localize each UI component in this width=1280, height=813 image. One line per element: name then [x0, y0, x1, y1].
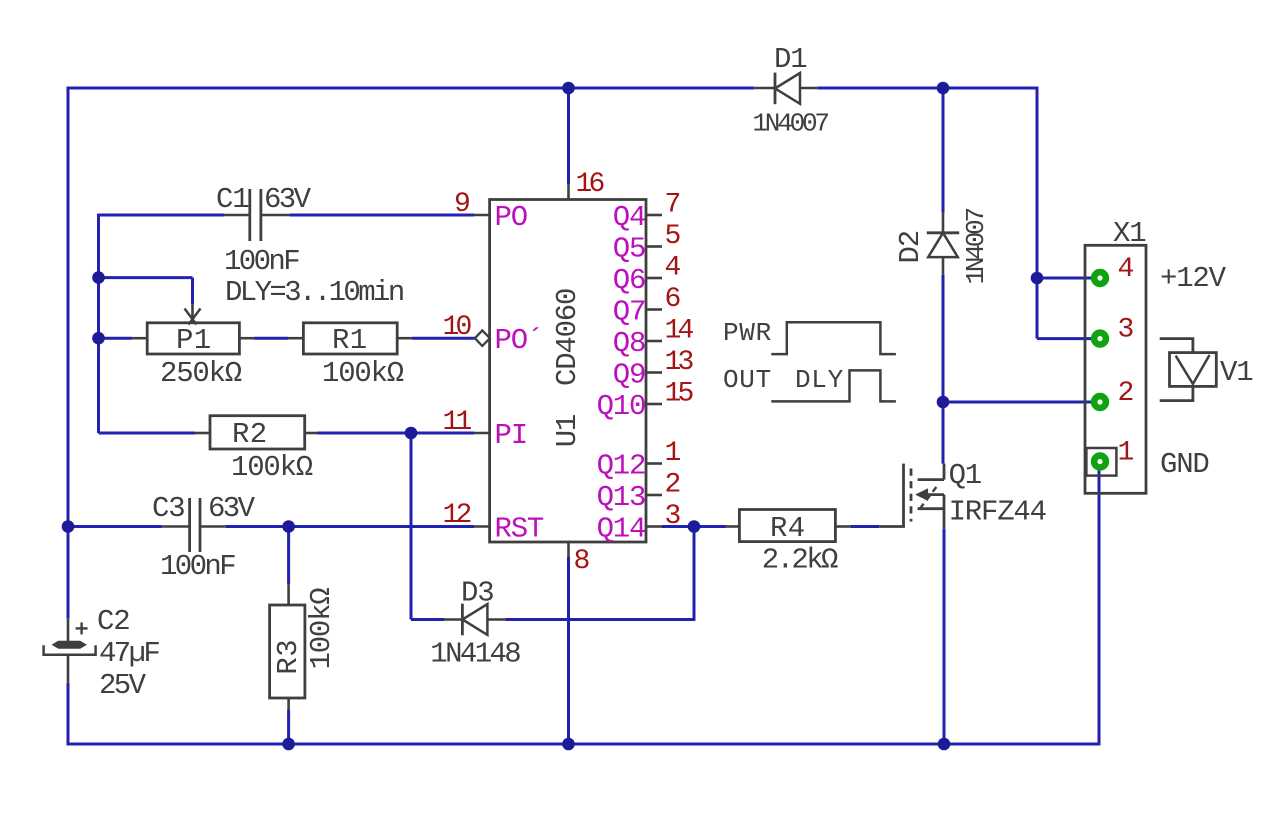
lamp V1 top lead: [1160, 339, 1193, 353]
wire +12V top rail left segment: [67, 87, 754, 90]
connector X1 pad pin 1: [1094, 456, 1106, 468]
wire C1 right plate to IC pin 9: [289, 214, 474, 217]
IC U1 right pin stub row 4: [646, 340, 662, 343]
svg-text:63V: 63V: [208, 492, 256, 525]
wire rail to P1 left: [99, 337, 132, 340]
diode D3 symbol: [461, 604, 464, 636]
resistor R3 top lead: [287, 584, 290, 605]
resistor R2 body: [210, 416, 305, 449]
svg-text:5: 5: [665, 221, 681, 252]
connector X1 pad pin 2: [1094, 396, 1106, 408]
svg-text:DLY=3..10min: DLY=3..10min: [225, 276, 403, 309]
IC U1 pin 8 stub: [567, 542, 570, 557]
wire left GND rail below C2: [67, 683, 70, 746]
wire D3 anode to Q14 node vertical: [505, 618, 694, 621]
svg-text:C1: C1: [216, 183, 248, 216]
transistor Q1 drain stub: [918, 478, 944, 481]
IC U1 right pin stub row 6: [646, 403, 662, 406]
svg-text:X1: X1: [1113, 217, 1145, 250]
svg-text:1N4007: 1N4007: [752, 109, 828, 139]
svg-text:Q12: Q12: [597, 450, 646, 483]
svg-text:250kΩ: 250kΩ: [160, 357, 242, 390]
transistor Q1 bulk stub: [918, 493, 944, 496]
junction R3 bottom on GND rail: [282, 738, 295, 751]
junction PI node: [405, 427, 418, 440]
svg-text:2: 2: [1118, 378, 1133, 409]
svg-text:R4: R4: [770, 512, 806, 545]
transistor Q1 drain lead vertical: [943, 464, 946, 480]
wire GND bottom rail: [67, 743, 1099, 746]
wire top-right corner down to X1 pin 4: [1036, 87, 1039, 278]
svg-text:D2: D2: [894, 231, 927, 263]
svg-text:OUT: OUT: [723, 365, 772, 395]
svg-text:63V: 63V: [264, 183, 312, 216]
wire D2 anode down to Q1 drain node: [942, 275, 945, 464]
wire D2 cathode up to +12V rail: [942, 87, 945, 213]
capacitor C1 left lead: [224, 214, 249, 217]
diode D1 left lead: [754, 87, 775, 90]
wire PI node down to D3 row: [410, 433, 413, 620]
wire X1 pin 1 down to GND rail: [1098, 470, 1101, 745]
svg-text:PO´: PO´: [495, 324, 544, 357]
wire left rail to C3: [68, 525, 162, 528]
resistor R1 body: [303, 323, 397, 354]
transistor Q1 channel dashed line: [910, 469, 913, 522]
wire IC pin 8 down to GND rail: [567, 557, 570, 744]
wire R3 top lead up to RST row: [287, 527, 290, 585]
svg-text:14: 14: [665, 316, 694, 347]
IC U1 pin 10 inverting diamond: [475, 330, 490, 346]
junction wiper branch on rail: [92, 271, 105, 284]
wire +12V top rail right segment: [818, 87, 1039, 90]
junction C3 row on left rail: [62, 520, 75, 533]
diode D3 left lead: [443, 618, 462, 621]
diode D2 top lead: [942, 213, 945, 233]
wire X1 pin 3 horizontal: [1037, 337, 1092, 340]
resistor R2 right lead: [305, 432, 318, 435]
wire left +12V rail vertical: [67, 87, 70, 619]
svg-text:11: 11: [443, 407, 472, 438]
wire IC pin 16 up to +12V rail: [567, 88, 570, 184]
junction IC pin8 on GND rail: [562, 738, 575, 751]
resistor R4 right lead: [835, 525, 851, 528]
wire Q1 source down to GND rail: [943, 529, 946, 744]
svg-text:+12V: +12V: [1160, 262, 1227, 295]
IC U1 right pin stub row 7: [646, 462, 662, 465]
svg-text:C2: C2: [97, 605, 129, 638]
diode D3 right lead: [487, 618, 505, 621]
waveform PWR trace: [771, 322, 896, 354]
svg-text:16: 16: [576, 169, 604, 200]
svg-text:100kΩ: 100kΩ: [305, 588, 338, 670]
svg-text:100kΩ: 100kΩ: [322, 357, 404, 390]
svg-text:8: 8: [574, 546, 589, 577]
resistor R4 left lead: [726, 525, 740, 528]
svg-text:2.2kΩ: 2.2kΩ: [762, 544, 838, 577]
connector X1 pin1 marker square: [1086, 448, 1116, 476]
svg-text:D1: D1: [774, 43, 806, 76]
wire C1 left to vertical rail: [99, 214, 225, 217]
potentiometer P1 wiper arrow shaft: [191, 304, 194, 321]
op IC U1 CD4060 body: [490, 200, 646, 543]
wire Q1 drain node to X1 pin 2: [943, 401, 1092, 404]
svg-text:13: 13: [665, 347, 694, 378]
svg-text:PWR: PWR: [723, 318, 772, 348]
wire IC pin 3 Q14 to R4: [662, 525, 726, 528]
connector X1 pad pin 4: [1094, 272, 1106, 284]
svg-text:PO: PO: [495, 201, 527, 234]
svg-text:Q7: Q7: [613, 296, 645, 329]
junction pin16 / top rail: [562, 82, 575, 95]
lamp V1 V-mark: [1176, 355, 1210, 384]
wire R3 bottom lead to GND rail: [287, 710, 290, 744]
capacitor C1 right lead: [262, 214, 290, 217]
resistor R3 bottom lead: [287, 698, 290, 710]
potentiometer P1 wiper arrowhead: [185, 309, 197, 325]
svg-text:15: 15: [665, 379, 694, 410]
IC U1 pin 12 stub: [474, 525, 490, 528]
junction X1 pin4 node: [1031, 272, 1044, 285]
IC U1 right pin stub row 3: [646, 308, 662, 311]
svg-text:10: 10: [443, 312, 472, 343]
junction D2 / top rail: [937, 82, 950, 95]
capacitor C3 left lead: [162, 525, 189, 528]
svg-text:DLY: DLY: [795, 365, 844, 395]
capacitor C1 right plate: [259, 189, 262, 241]
resistor R1 right lead: [397, 337, 412, 340]
wire X1 pin 4 horizontal: [1037, 277, 1092, 280]
svg-text:6: 6: [665, 284, 680, 315]
svg-text:Q1: Q1: [949, 459, 981, 492]
IC U1 right pin stub row 0: [646, 214, 662, 217]
svg-text:R2: R2: [232, 418, 268, 451]
transistor Q1 bulk arrowhead: [917, 489, 928, 500]
wire P1 wiper branch horizontal: [99, 276, 193, 279]
transistor Q1 source stub: [918, 507, 944, 510]
svg-text:GND: GND: [1160, 448, 1209, 481]
diode D2 bottom lead: [942, 257, 945, 275]
wire rail to R2 left: [99, 432, 196, 435]
svg-text:Q9: Q9: [613, 359, 645, 392]
diode D1 right lead: [800, 87, 818, 90]
capacitor C2 top lead: [67, 619, 70, 642]
transistor Q1 gate lead: [879, 464, 903, 527]
svg-text:7: 7: [665, 190, 680, 221]
wire X1 pin 3 branch vertical: [1036, 278, 1039, 339]
svg-text:IRFZ44: IRFZ44: [949, 495, 1046, 528]
connector X1 body: [1085, 245, 1146, 493]
svg-text:1N4148: 1N4148: [430, 638, 520, 671]
IC U1 pin 9 stub: [474, 214, 490, 217]
svg-text:100nF: 100nF: [224, 245, 299, 278]
svg-text:RST: RST: [495, 513, 544, 546]
svg-text:3: 3: [1118, 315, 1134, 346]
transistor Q1 source lead vertical: [943, 495, 946, 529]
junction Q14 output node: [688, 520, 701, 533]
transistor Q1 body diode dashed diagonal: [920, 486, 938, 509]
diode D2 symbol: [927, 231, 959, 234]
svg-text:Q5: Q5: [613, 233, 645, 266]
capacitor C2 plus sign: [76, 627, 88, 629]
lamp V1 bottom lead: [1160, 386, 1193, 400]
wire vertical rail x=98.5 (C1 to R2 row): [97, 214, 100, 433]
svg-text:1: 1: [1118, 438, 1134, 469]
svg-text:Q13: Q13: [597, 481, 646, 514]
junction P1 row on rail: [92, 332, 105, 345]
wire R2 right to IC pin 11: [318, 432, 475, 435]
resistor R3 body: [270, 605, 305, 698]
IC U1 right pin stub row 8: [646, 494, 662, 497]
svg-text:9: 9: [454, 189, 469, 220]
potentiometer P1 right lead: [239, 337, 254, 340]
capacitor C3 right plate: [199, 498, 202, 552]
svg-text:4: 4: [665, 253, 681, 284]
svg-text:47µF: 47µF: [99, 637, 159, 670]
capacitor C3 left plate: [188, 498, 191, 552]
svg-text:U1: U1: [551, 415, 584, 447]
svg-text:1: 1: [665, 438, 681, 469]
junction Q1 drain / X1 pin2 node: [937, 396, 950, 409]
potentiometer P1 left lead: [132, 337, 148, 340]
IC U1 right pin stub row 9: [646, 525, 662, 528]
wire P1 wiper branch vertical: [191, 278, 194, 304]
IC U1 pin 11 stub: [474, 432, 490, 435]
svg-text:4: 4: [1118, 254, 1134, 285]
svg-text:PI: PI: [495, 419, 527, 452]
wire Q14 junction down to D3 row: [693, 527, 696, 621]
capacitor C2 positive plate: [53, 642, 85, 649]
svg-text:P1: P1: [176, 324, 212, 357]
resistor R2 left lead: [195, 432, 210, 435]
connector X1 pad pin 3: [1094, 333, 1106, 345]
resistor R1 left lead: [288, 337, 303, 340]
junction R3 top on RST row: [282, 520, 295, 533]
wire R1 to IC pin 10 diamond: [413, 337, 475, 340]
lamp V1 body: [1170, 353, 1217, 387]
capacitor C2 negative plate cup: [44, 645, 96, 655]
wire R4 to Q1 gate: [851, 525, 879, 528]
svg-text:Q14: Q14: [597, 513, 646, 546]
svg-text:25V: 25V: [99, 669, 147, 702]
capacitor C1 left plate: [248, 189, 251, 241]
junction Q1 source on GND rail: [938, 738, 951, 751]
svg-text:12: 12: [443, 500, 471, 531]
svg-text:Q6: Q6: [613, 264, 645, 297]
wire P1 to R1: [255, 337, 289, 340]
svg-text:2: 2: [665, 470, 680, 501]
svg-text:CD4060: CD4060: [551, 289, 584, 386]
diode D1 symbol: [774, 73, 777, 105]
svg-text:C3: C3: [152, 492, 184, 525]
IC U1 pin 16 stub: [567, 184, 570, 200]
svg-text:Q10: Q10: [597, 390, 646, 423]
resistor R4 body: [739, 510, 835, 542]
IC U1 right pin stub row 5: [646, 371, 662, 374]
svg-text:Q8: Q8: [613, 327, 645, 360]
svg-text:V1: V1: [1220, 356, 1252, 389]
wire D3 row left segment: [411, 618, 445, 621]
svg-text:R1: R1: [332, 324, 368, 357]
capacitor C3 right lead: [200, 525, 225, 528]
svg-text:100kΩ: 100kΩ: [231, 451, 313, 484]
wire C3 to IC pin 12 RST: [226, 525, 474, 528]
svg-text:D3: D3: [461, 577, 493, 610]
svg-text:1N4007: 1N4007: [961, 208, 991, 284]
IC U1 right pin stub row 2: [646, 277, 662, 280]
capacitor C2 bottom lead: [67, 655, 70, 683]
potentiometer P1 body: [147, 323, 239, 354]
waveform OUT trace: [771, 370, 896, 401]
svg-text:100nF: 100nF: [160, 550, 235, 583]
svg-text:R3: R3: [272, 639, 305, 675]
svg-text:Q4: Q4: [613, 201, 645, 234]
IC U1 right pin stub row 1: [646, 245, 662, 248]
